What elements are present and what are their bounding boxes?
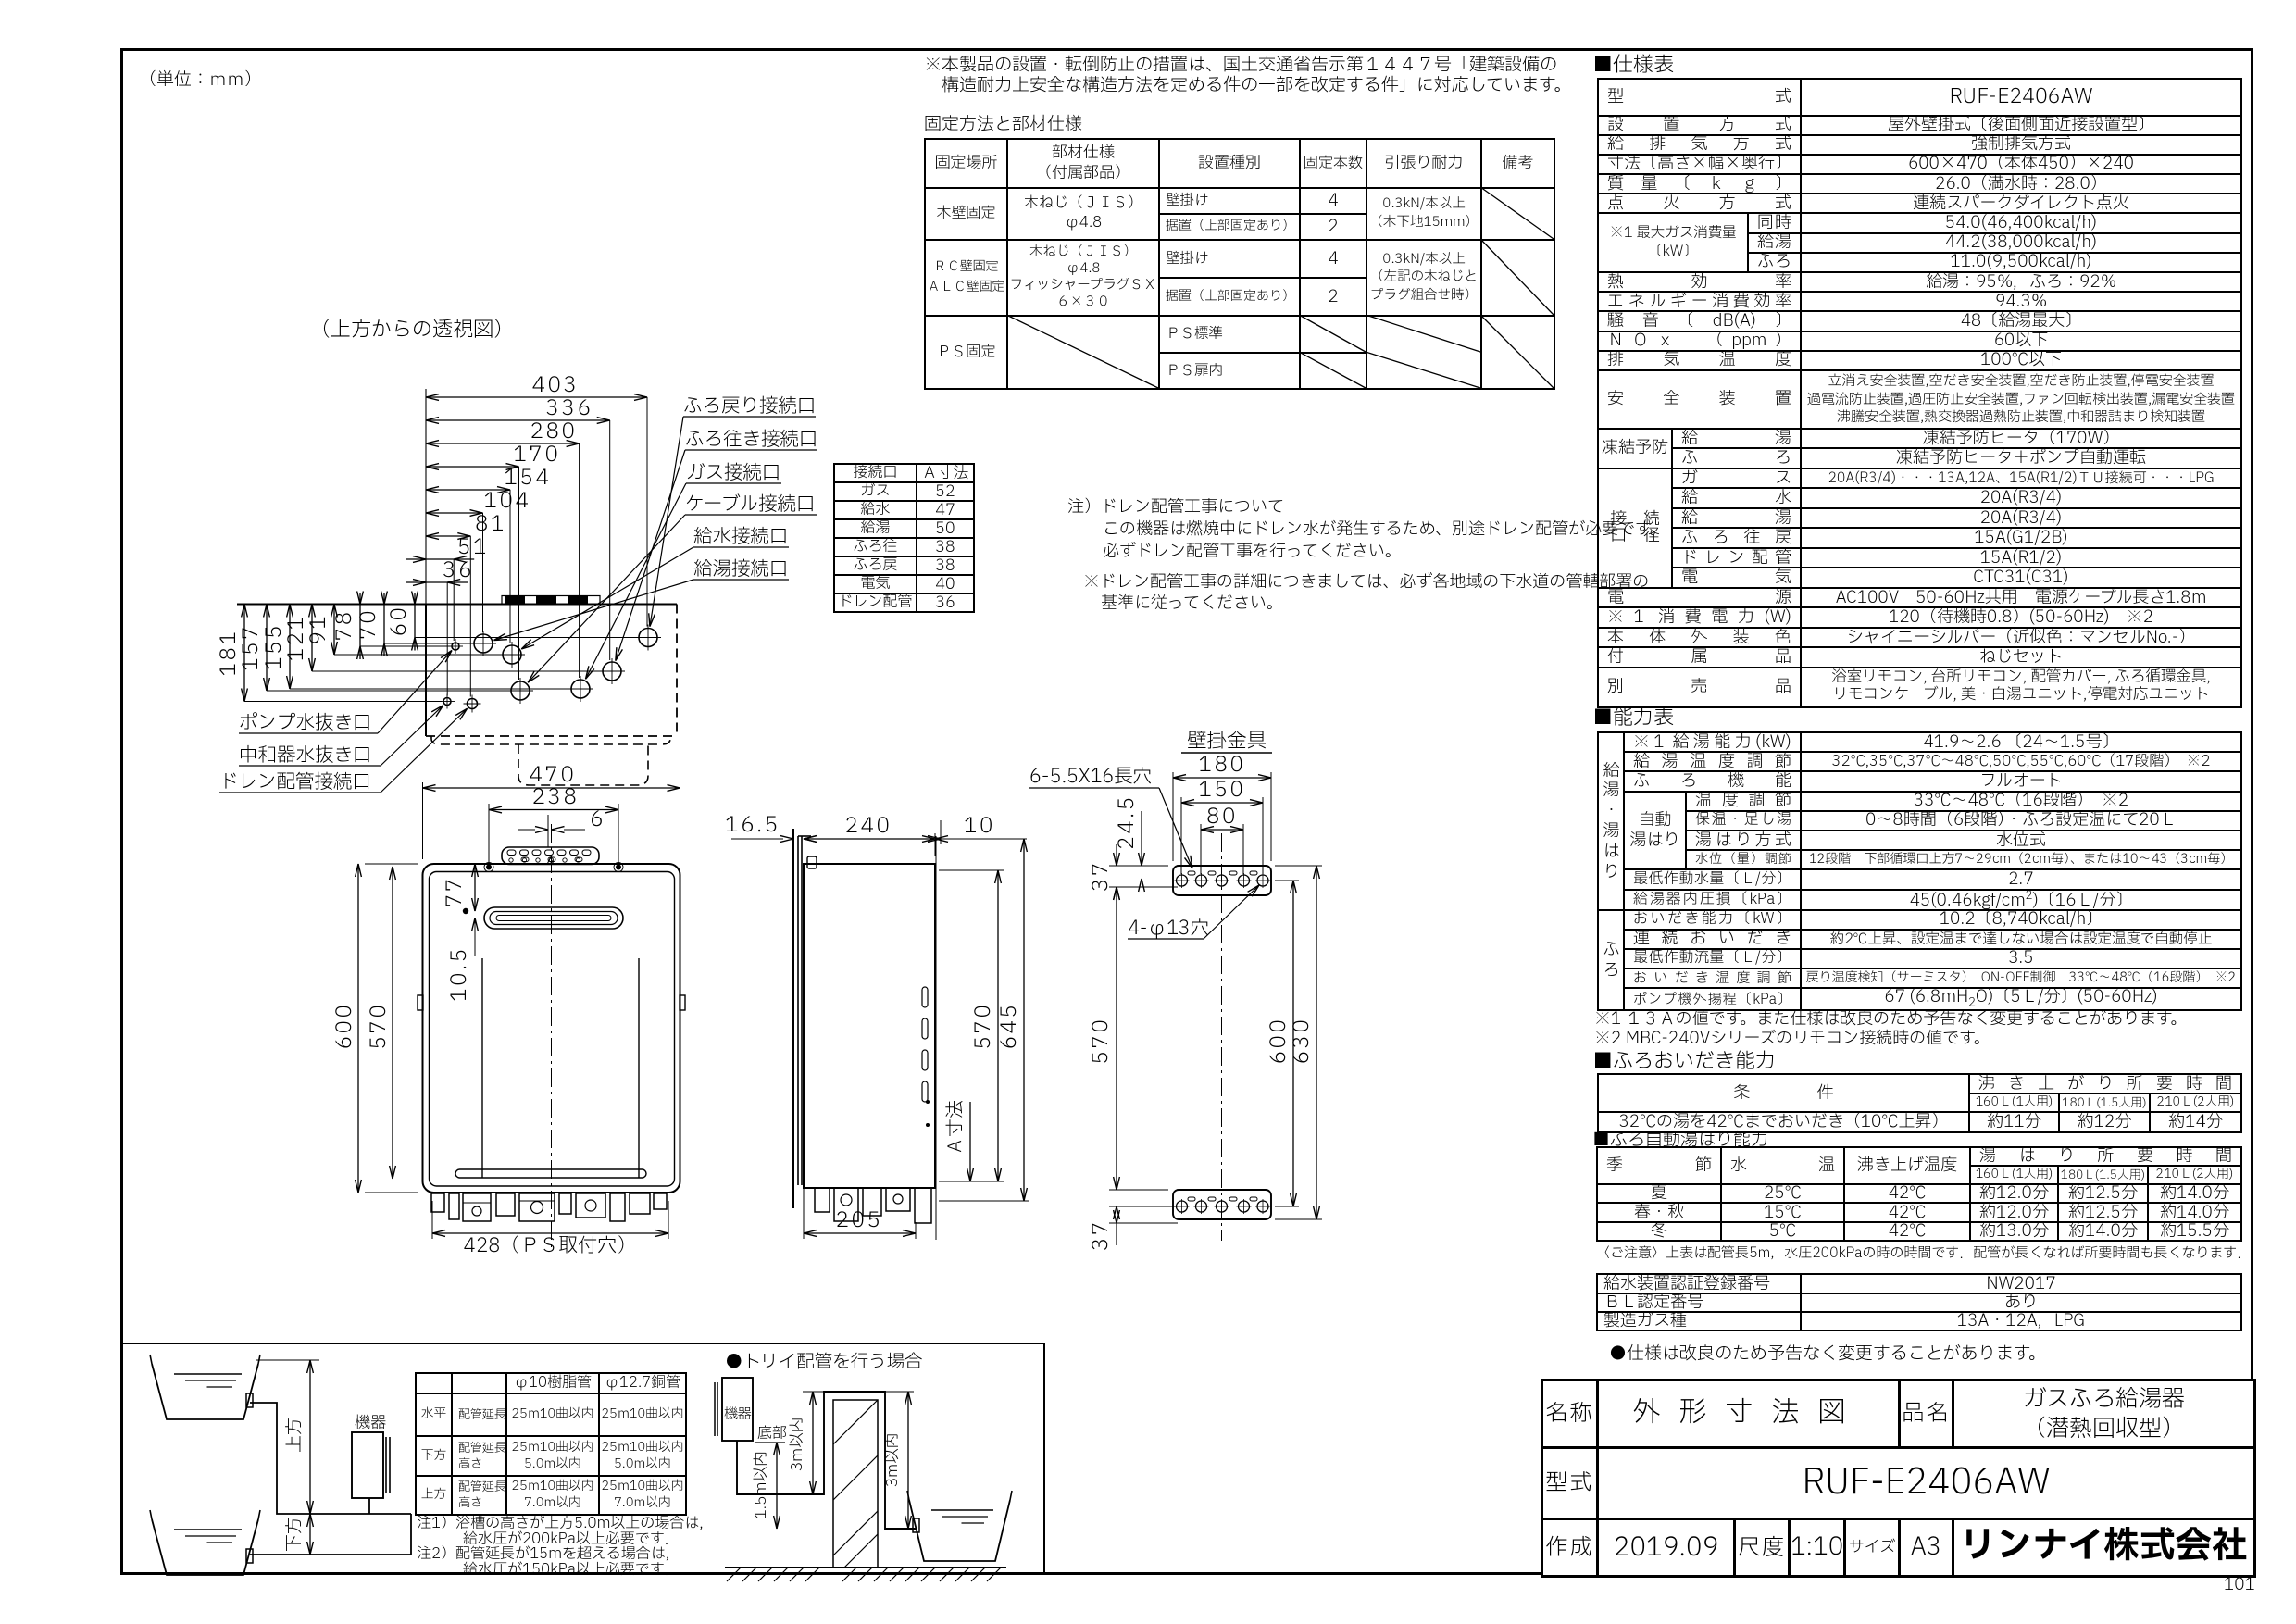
svg-text:上方: 上方 — [282, 1418, 308, 1453]
svg-text:238: 238 — [532, 782, 580, 814]
torii: top extension — [803, 1391, 914, 1393]
certification table — [1596, 1273, 2242, 1331]
front view: outer body — [423, 864, 680, 1193]
top view: unit outline — [425, 605, 427, 737]
bracket: bottom plate — [1173, 1190, 1271, 1219]
installation note — [924, 56, 1571, 96]
drain piping note — [1067, 496, 1666, 563]
dim 157 — [266, 605, 268, 692]
bracket: dim 150 — [1180, 797, 1182, 874]
bottom-left: unit box — [352, 1432, 383, 1498]
dim 170 — [426, 466, 519, 468]
dim 78 — [359, 593, 361, 659]
svg-text:下方: 下方 — [282, 1517, 308, 1552]
piping length table — [415, 1372, 687, 1516]
bottom-left: pipes — [250, 1403, 411, 1514]
dim 181 — [243, 605, 245, 702]
diag strokes fixing table — [1480, 187, 1554, 239]
top view: drain pan dashed bulge — [431, 736, 670, 744]
capacity table 能力表 — [1597, 731, 2242, 1011]
spec change note — [1609, 1344, 2046, 1365]
fixing method table — [924, 138, 1555, 390]
bracket: dim 37 bottom — [1114, 1206, 1120, 1219]
svg-text:3m以内: 3m以内 — [787, 1418, 809, 1472]
dim 60 — [414, 593, 416, 651]
spec table heading — [1592, 54, 1674, 78]
dim 104 — [426, 512, 483, 514]
dim 91 — [333, 605, 335, 656]
svg-text:70: 70 — [354, 608, 385, 640]
A-dimension table — [833, 463, 975, 613]
dim 336 — [426, 419, 610, 421]
port circle S3 — [443, 698, 451, 706]
side view: dim 10 — [935, 836, 948, 843]
kiki labels — [355, 1415, 386, 1433]
svg-text:570: 570 — [1086, 1018, 1117, 1065]
bottom-left sub box — [122, 1343, 1045, 1575]
port circle P5 — [503, 645, 521, 664]
svg-text:10.5: 10.5 — [444, 946, 476, 1002]
top view: wall bracket hatched strip — [505, 596, 597, 604]
piping notes — [417, 1517, 714, 1578]
svg-text:77: 77 — [440, 876, 471, 907]
side view: dim 570 — [997, 870, 999, 1181]
front view: exhaust grille — [502, 847, 599, 865]
capacity notes — [1594, 1009, 2187, 1029]
front view: inner panel — [430, 872, 675, 1187]
svg-text:6: 6 — [590, 805, 605, 836]
bracket: dim 600 — [1275, 880, 1299, 881]
torii: ground — [725, 1567, 1006, 1568]
front view: top mount screws — [486, 865, 492, 870]
bottom-left: dim 上方 — [256, 1359, 319, 1361]
svg-text:205: 205 — [836, 1206, 883, 1237]
front view: dim 600 — [357, 864, 359, 1193]
side view: dim A — [969, 1102, 971, 1181]
dim 280 — [426, 443, 580, 444]
side view: right extension — [935, 836, 937, 1240]
front view: bottom slot — [455, 1169, 646, 1178]
side view: body — [804, 864, 935, 1188]
svg-text:10: 10 — [964, 811, 995, 843]
port circle S1 — [452, 643, 459, 650]
svg-text:6-5.5X16長穴: 6-5.5X16長穴 — [1029, 763, 1152, 792]
svg-text:24.5: 24.5 — [1112, 794, 1143, 850]
reheat capability table — [1597, 1073, 2242, 1133]
bracket: dim 570 — [1116, 887, 1117, 1190]
bottom-left: upper bathtub — [150, 1355, 152, 1364]
fixing table caption — [924, 115, 1082, 135]
svg-text:3m以内: 3m以内 — [882, 1433, 905, 1488]
port circle P2 — [603, 662, 621, 681]
title block — [1541, 1379, 2256, 1578]
torii: dim 1.5m — [776, 1443, 778, 1529]
port circle S2 — [468, 699, 478, 709]
torii: wall — [833, 1400, 878, 1568]
dim 51 — [406, 558, 474, 560]
bracket: dim 37 top — [1116, 844, 1117, 866]
bracket: dim 630 — [1275, 865, 1322, 867]
svg-text:240: 240 — [845, 811, 892, 843]
front view: bottom pipe stubs — [431, 1193, 444, 1212]
svg-text:Ａ寸法: Ａ寸法 — [942, 1100, 969, 1156]
port circle P4 — [511, 681, 530, 700]
svg-text:600: 600 — [330, 1003, 361, 1050]
svg-text:428（ＰＳ取付穴）: 428（ＰＳ取付穴） — [464, 1232, 637, 1261]
reheat heading — [1592, 1050, 1776, 1074]
svg-text:37: 37 — [1086, 860, 1117, 892]
unit note — [139, 70, 262, 91]
side view: bottom pipes — [815, 1188, 830, 1212]
torii: right tub — [907, 1491, 909, 1500]
svg-text:16.5: 16.5 — [725, 810, 780, 842]
bottom-left: lower bathtub — [150, 1510, 152, 1519]
side view: louver slots — [922, 987, 928, 1007]
top view title — [310, 319, 514, 343]
front view: dim 428 PS — [431, 1201, 433, 1239]
front view: dim 6 — [547, 815, 549, 847]
auto-fill capability table — [1596, 1146, 2242, 1242]
dim 36 — [406, 581, 468, 583]
port circle P3 — [571, 680, 590, 698]
dim 121 — [311, 605, 313, 672]
top view: horizontal dim chain — [425, 389, 427, 605]
svg-text:570: 570 — [364, 1003, 395, 1050]
page number — [2224, 1575, 2255, 1594]
svg-text:36: 36 — [443, 556, 474, 587]
svg-text:60: 60 — [384, 606, 416, 637]
autofill heading — [1592, 1131, 1768, 1151]
bracket: dim 80 — [1200, 824, 1202, 874]
svg-text:80: 80 — [1206, 802, 1238, 833]
spec table 仕様表 — [1597, 78, 2242, 708]
torii: dim 3m right — [907, 1392, 909, 1529]
bracket: dim 180 — [1172, 772, 1174, 861]
front view: dim 10.5 — [474, 918, 476, 956]
dim 70 — [383, 593, 385, 656]
dim 154 — [426, 489, 510, 491]
front view: panel reflection lines — [481, 958, 483, 1178]
front view: dim 470 — [422, 782, 424, 859]
bottom-left: dim 下方 — [309, 1514, 311, 1555]
front view: dim 570 — [392, 867, 393, 1179]
bracket: center line — [1221, 833, 1223, 1241]
port circle P6 — [474, 634, 493, 653]
dim 403 — [426, 396, 647, 398]
front view: dim 77 — [474, 864, 476, 911]
torii: dim 3m left — [812, 1392, 814, 1494]
torii: unit box — [722, 1378, 753, 1441]
bracket: dim 24.5 — [1141, 811, 1142, 866]
front view: center line — [551, 824, 553, 1248]
front view: side latch tabs — [418, 995, 423, 1010]
svg-text:1.5m以内: 1.5m以内 — [751, 1451, 773, 1518]
side view: dim 205 — [804, 1232, 916, 1234]
front view: dim 238 — [488, 804, 490, 862]
side view: dim 240 — [804, 838, 935, 840]
front view: intake slot — [484, 907, 623, 929]
top view: wall datum line — [237, 604, 677, 606]
side view: wall line — [792, 829, 794, 1208]
torii heading — [725, 1352, 923, 1373]
torii: 底部 underline — [755, 1442, 785, 1443]
svg-text:630: 630 — [1287, 1018, 1318, 1065]
svg-text:37: 37 — [1086, 1219, 1117, 1251]
dim 81 — [426, 535, 470, 537]
svg-text:570: 570 — [968, 1003, 1000, 1050]
capacity heading — [1592, 706, 1674, 731]
caution line — [1596, 1245, 2251, 1262]
port circle P1 — [639, 629, 657, 647]
dim 155 — [289, 605, 291, 690]
side view: dim 645 — [1023, 839, 1025, 1201]
side view: back flange — [797, 836, 799, 1185]
torii: pipe — [737, 1392, 917, 1529]
bracket: top plate — [1173, 866, 1271, 895]
